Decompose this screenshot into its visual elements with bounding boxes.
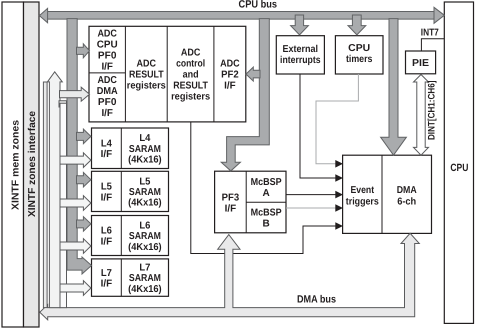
dark arrow into ADC PF2 I/F	[246, 67, 260, 81]
DMA bus + left light bus + risers to PF3 and DMA (merged light network)	[40, 233, 420, 319]
svg-text:L5: L5	[101, 182, 112, 193]
svg-text:Event: Event	[351, 185, 375, 196]
CPU bar	[444, 2, 473, 323]
wire McBSP A to event triggers	[286, 194, 336, 196]
svg-text:I/F: I/F	[101, 237, 113, 248]
svg-text:SARAM: SARAM	[129, 187, 161, 198]
white arrow into L7 I/F	[60, 281, 91, 296]
External interrupts box	[276, 36, 324, 74]
svg-text:DMA bus: DMA bus	[297, 293, 336, 305]
svg-text:DMA: DMA	[397, 185, 417, 196]
svg-text:I/F: I/F	[101, 279, 113, 290]
light bus jog	[59, 101, 67, 107]
Event triggers / DMA block	[343, 155, 432, 233]
svg-text:RESULT: RESULT	[129, 70, 164, 81]
svg-text:SARAM: SARAM	[129, 144, 161, 155]
svg-text:McBSP: McBSP	[251, 177, 282, 188]
dark arrow into L4 I/F	[77, 129, 91, 144]
svg-text:(4Kx16): (4Kx16)	[128, 284, 162, 295]
arrowhead input 3	[335, 191, 343, 199]
svg-text:PF2: PF2	[221, 70, 239, 81]
dark arrow into External interrupts	[291, 15, 309, 35]
svg-text:L4: L4	[101, 138, 112, 149]
L5 SARAM box	[92, 171, 169, 211]
svg-text:I/F: I/F	[224, 81, 236, 92]
XINTF zones interface bar	[24, 2, 40, 327]
svg-text:CPU bus: CPU bus	[239, 0, 278, 11]
wire External interrupts to event triggers	[300, 74, 336, 178]
svg-text:ADC: ADC	[181, 48, 201, 59]
arrowhead input 5	[335, 222, 343, 230]
svg-text:ADC: ADC	[97, 29, 117, 40]
arrowhead input 4	[335, 204, 343, 212]
svg-text:ADC: ADC	[137, 59, 157, 70]
svg-text:L7: L7	[139, 263, 150, 274]
L7 SARAM box	[92, 259, 169, 296]
svg-text:L6: L6	[139, 220, 150, 231]
XINTF mem zones bar	[2, 2, 24, 327]
svg-text:RESULT: RESULT	[173, 81, 208, 92]
white arrow into ADC DMA PF0 I/F	[60, 87, 90, 101]
svg-text:CPU: CPU	[450, 162, 468, 174]
svg-text:interrupts: interrupts	[280, 55, 321, 66]
svg-text:I/F: I/F	[101, 62, 113, 73]
wire PIE to CPU (INT7)	[421, 39, 444, 51]
dark arrow into L5 I/F	[77, 172, 91, 187]
svg-text:CPU: CPU	[97, 40, 118, 51]
arrowhead input 2	[335, 174, 343, 182]
svg-text:registers: registers	[171, 92, 210, 103]
white arrow into L5 I/F	[60, 196, 91, 211]
svg-text:B: B	[262, 219, 269, 230]
svg-text:L4: L4	[139, 133, 150, 144]
svg-text:DINT[CH1:CH6]: DINT[CH1:CH6]	[427, 81, 438, 141]
L6 SARAM box	[92, 216, 169, 256]
dark arrow into L6 I/F	[77, 217, 91, 232]
L4 SARAM box	[92, 128, 169, 169]
left dark bus with elbow arrow into L7	[67, 19, 92, 274]
svg-text:XINTF zones interface: XINTF zones interface	[27, 111, 38, 217]
svg-text:PF0: PF0	[98, 51, 117, 62]
svg-text:A: A	[262, 188, 269, 199]
svg-text:DMA: DMA	[97, 86, 118, 97]
svg-text:(4Kx16): (4Kx16)	[128, 242, 162, 253]
white arrow into L4 I/F	[60, 153, 91, 168]
svg-text:SARAM: SARAM	[129, 231, 161, 242]
svg-text:SARAM: SARAM	[129, 273, 161, 284]
arrowhead input 1	[335, 160, 343, 168]
svg-text:INT7: INT7	[421, 27, 439, 38]
white arrow into L6 I/F	[60, 239, 91, 254]
CPU bus right arrowhead into CPU	[434, 7, 444, 23]
svg-text:External: External	[283, 44, 319, 55]
dark arrow into CPU timers	[348, 15, 366, 35]
CPU bus left arrowhead into XINTF	[39, 8, 47, 22]
light bus inner vertical	[60, 103, 67, 307]
ADC block dividers	[124, 26, 126, 122]
svg-text:and: and	[183, 70, 199, 81]
PIE box	[406, 51, 436, 74]
svg-text:L5: L5	[139, 176, 150, 187]
CPU bus band	[46, 12, 438, 20]
svg-text:ADC: ADC	[97, 75, 117, 86]
thin light vertical wire (DMA bus to CPU bus corner)	[43, 82, 47, 308]
svg-text:XINTF mem zones: XINTF mem zones	[10, 120, 21, 210]
ADC block outer box	[89, 26, 246, 122]
svg-text:CPU: CPU	[348, 43, 370, 54]
svg-text:control: control	[176, 59, 205, 70]
dark arrow into ADC CPU PF0 I/F	[77, 44, 90, 58]
svg-text:I/F: I/F	[101, 149, 113, 160]
svg-text:PF0: PF0	[98, 97, 117, 108]
wire McBSP B to event triggers (gray)	[286, 207, 336, 209]
svg-text:6-ch: 6-ch	[397, 197, 416, 208]
svg-text:L6: L6	[101, 226, 112, 237]
svg-text:I/F: I/F	[225, 204, 237, 215]
wire ADC to event triggers	[191, 122, 336, 254]
right dark bus with arrow into DMA	[381, 19, 407, 156]
svg-text:PIE: PIE	[412, 58, 429, 69]
svg-text:registers: registers	[127, 81, 166, 92]
svg-text:(4Kx16): (4Kx16)	[128, 198, 162, 209]
CPU timers box	[335, 36, 383, 74]
PF3 / McBSP block	[215, 171, 286, 233]
outer light vertical with up arrow	[47, 72, 62, 308]
mid dark bus with elbow and arrow into PF3	[221, 19, 269, 171]
svg-text:(4Kx16): (4Kx16)	[128, 155, 162, 166]
svg-text:I/F: I/F	[101, 192, 113, 203]
DINT double arrow between PIE and DMA	[414, 75, 429, 156]
svg-text:PF3: PF3	[222, 192, 240, 203]
svg-text:triggers: triggers	[346, 197, 379, 208]
wire CPU timers to event triggers (gray)	[316, 74, 358, 164]
svg-text:McBSP: McBSP	[251, 208, 282, 219]
svg-text:ADC: ADC	[220, 59, 240, 70]
svg-text:timers: timers	[346, 54, 373, 65]
svg-text:L7: L7	[101, 268, 112, 279]
svg-text:I/F: I/F	[101, 108, 113, 119]
